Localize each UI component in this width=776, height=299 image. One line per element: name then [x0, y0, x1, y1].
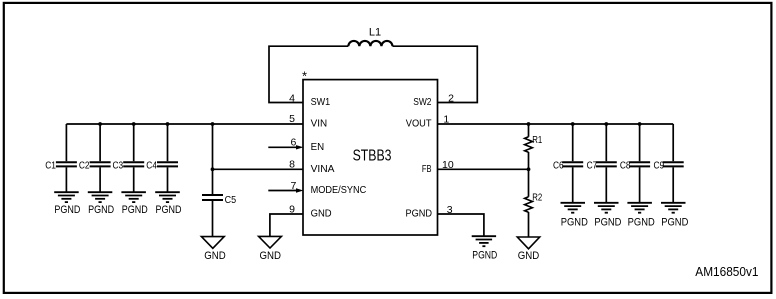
- wire VIN to VINA/C5: [212, 124, 214, 194]
- svg-text:PGND: PGND: [122, 204, 148, 216]
- svg-text:MODE/SYNC: MODE/SYNC: [311, 185, 367, 196]
- capacitor C4: [157, 124, 178, 192]
- svg-text:2: 2: [448, 92, 454, 104]
- svg-text:PGND: PGND: [661, 217, 688, 229]
- svg-text:C4: C4: [146, 161, 157, 172]
- arrowhead EN: [296, 145, 304, 149]
- resistor R2: [525, 169, 533, 237]
- ground GND at C5: [201, 237, 224, 249]
- arrowhead MODE/SYNC: [296, 188, 304, 192]
- svg-text:GND: GND: [518, 250, 540, 262]
- svg-text:4: 4: [289, 92, 295, 104]
- ground GND at R2: [517, 237, 539, 249]
- capacitor C9: [663, 124, 684, 203]
- svg-text:PGND: PGND: [472, 249, 497, 261]
- svg-text:EN: EN: [311, 142, 325, 153]
- svg-text:GND: GND: [259, 250, 281, 262]
- svg-text:PGND: PGND: [54, 204, 80, 216]
- svg-text:C2: C2: [79, 161, 90, 172]
- svg-text:8: 8: [289, 159, 295, 171]
- svg-text:FB: FB: [422, 164, 432, 175]
- capacitor C8: [629, 124, 650, 203]
- junction VOUT/R1: [527, 122, 531, 126]
- svg-text:9: 9: [289, 203, 295, 215]
- ground PGND at C7: [594, 203, 619, 213]
- wire VIN bus: [66, 123, 303, 125]
- capacitor C3: [123, 124, 144, 192]
- ground PGND at C6: [561, 203, 586, 213]
- junction VOUT/C8: [638, 122, 642, 126]
- inductor L1: [348, 41, 392, 46]
- svg-text:PGND: PGND: [594, 217, 621, 229]
- junction VIN/C4: [166, 122, 170, 126]
- ground PGND at C3: [121, 192, 145, 202]
- ground PGND at C1: [54, 192, 78, 202]
- wire FB: [438, 168, 529, 170]
- capacitor C7: [596, 124, 617, 203]
- ground PGND at C8: [627, 203, 652, 213]
- junction VIN/C3: [132, 122, 136, 126]
- svg-text:STBB3: STBB3: [353, 147, 392, 164]
- wire MODE/SYNC stub: [268, 190, 298, 192]
- capacitor C6: [562, 124, 583, 203]
- wire VINA: [213, 168, 304, 170]
- svg-text:C7: C7: [587, 161, 598, 172]
- resistor R1: [525, 124, 533, 169]
- svg-text:10: 10: [442, 159, 454, 171]
- ground GND at pin 9: [259, 236, 282, 248]
- svg-text:SW1: SW1: [311, 97, 331, 108]
- svg-text:5: 5: [289, 113, 295, 125]
- svg-text:C5: C5: [225, 195, 237, 206]
- wire VOUT bus: [438, 123, 674, 125]
- svg-text:AM16850v1: AM16850v1: [695, 264, 758, 279]
- junction VIN/C2: [98, 122, 102, 126]
- svg-text:PGND: PGND: [406, 209, 433, 220]
- junction VOUT/C6: [571, 122, 575, 126]
- junction VIN/C5 branch: [211, 122, 215, 126]
- wire SW1 to L1 left leg: [269, 46, 348, 102]
- capacitor C1: [56, 124, 77, 192]
- svg-text:VIN: VIN: [311, 119, 328, 130]
- svg-text:PGND: PGND: [628, 217, 655, 229]
- wire EN stub: [268, 146, 298, 148]
- junction VINA/C5: [211, 167, 215, 171]
- svg-text:GND: GND: [311, 209, 332, 220]
- svg-text:PGND: PGND: [88, 204, 114, 216]
- svg-text:C8: C8: [620, 161, 631, 172]
- junction VOUT/C7: [604, 122, 608, 126]
- svg-text:R1: R1: [532, 135, 542, 146]
- svg-text:GND: GND: [204, 250, 226, 262]
- junction FB/R1/R2: [527, 167, 531, 171]
- ground PGND at pin 3: [472, 236, 496, 246]
- svg-text:*: *: [302, 69, 307, 84]
- wire PGND pin 3: [438, 214, 484, 236]
- svg-text:VOUT: VOUT: [406, 119, 432, 130]
- svg-text:R2: R2: [532, 193, 542, 204]
- svg-text:C1: C1: [45, 161, 56, 172]
- ground PGND at C4: [155, 192, 180, 202]
- svg-text:VINA: VINA: [311, 164, 335, 175]
- wire L1 to SW2 right leg: [393, 46, 478, 102]
- svg-text:PGND: PGND: [156, 204, 182, 216]
- svg-text:SW2: SW2: [413, 97, 431, 108]
- svg-text:C9: C9: [654, 161, 665, 172]
- svg-text:1: 1: [443, 114, 449, 126]
- svg-text:6: 6: [290, 137, 296, 149]
- svg-text:PGND: PGND: [561, 217, 588, 229]
- wire GND pin 9: [270, 214, 303, 236]
- svg-text:7: 7: [290, 180, 296, 192]
- svg-text:C6: C6: [553, 161, 564, 172]
- capacitor C2: [90, 124, 111, 192]
- ground PGND at C9: [661, 203, 686, 213]
- svg-text:L1: L1: [369, 27, 381, 39]
- svg-text:C3: C3: [113, 161, 124, 172]
- capacitor C5: [202, 195, 223, 237]
- op-amp U1 STBB3 body: [303, 80, 438, 235]
- svg-text:3: 3: [447, 204, 453, 216]
- ground PGND at C2: [88, 192, 113, 202]
